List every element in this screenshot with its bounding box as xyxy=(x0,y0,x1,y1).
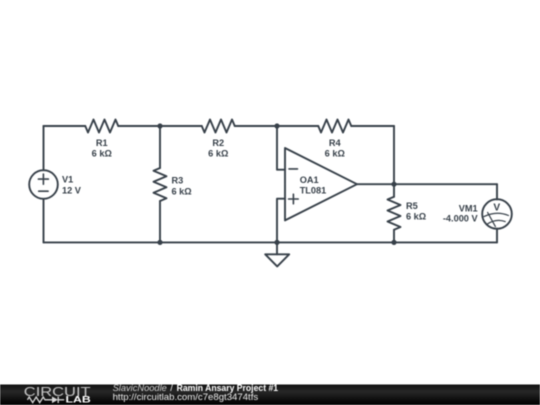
wire R5 stubs xyxy=(393,184,395,242)
resistor R3 xyxy=(154,168,167,201)
resistor R5 xyxy=(388,197,401,230)
svg-text:6 kΩ: 6 kΩ xyxy=(172,186,192,196)
resistor R2 xyxy=(202,120,235,133)
svg-text:http://circuitlab.com/c7e8gt34: http://circuitlab.com/c7e8gt3474tfs xyxy=(113,392,259,402)
svg-text:6 kΩ: 6 kΩ xyxy=(208,148,228,158)
wire feedback right xyxy=(393,126,395,184)
svg-text:V: V xyxy=(493,202,500,213)
logo CircuitLab xyxy=(24,384,91,405)
voltage source V1 xyxy=(29,170,58,199)
wire output xyxy=(357,183,497,185)
wire inverting input xyxy=(277,126,285,170)
svg-text:6 kΩ: 6 kΩ xyxy=(406,212,426,222)
svg-text:R2: R2 xyxy=(212,138,224,148)
node ground junction xyxy=(274,240,279,245)
svg-text:R1: R1 xyxy=(96,138,108,148)
svg-text:-4.000 V: -4.000 V xyxy=(443,214,479,224)
svg-text:V1: V1 xyxy=(62,175,73,185)
ground xyxy=(265,254,289,266)
node R5 bottom xyxy=(391,240,396,245)
svg-text:LAB: LAB xyxy=(66,395,91,405)
node R3 top xyxy=(157,123,162,128)
wire non-inverting input xyxy=(277,199,285,243)
svg-text:6 kΩ: 6 kΩ xyxy=(92,148,112,158)
wire bottom rail xyxy=(44,241,498,243)
svg-text:R4: R4 xyxy=(329,138,342,148)
op-amp OA1 xyxy=(285,148,357,220)
svg-text:OA1: OA1 xyxy=(300,175,319,185)
wire VM1 stubs xyxy=(496,184,498,242)
wire left branch xyxy=(43,126,45,242)
svg-text:6 kΩ: 6 kΩ xyxy=(325,148,345,158)
wire top rail xyxy=(44,125,395,127)
svg-text:R5: R5 xyxy=(406,201,418,211)
svg-text:12 V: 12 V xyxy=(62,185,82,195)
wire R3 stubs xyxy=(159,126,161,242)
wire ground stub xyxy=(276,242,278,254)
svg-text:VM1: VM1 xyxy=(459,204,478,214)
svg-text:R3: R3 xyxy=(172,176,184,186)
voltmeter VM1 xyxy=(482,199,512,229)
node R3 bottom xyxy=(157,240,162,245)
node inverting column top xyxy=(274,123,279,128)
svg-text:TL081: TL081 xyxy=(300,186,327,196)
node output xyxy=(391,182,396,187)
resistor R1 xyxy=(85,120,118,133)
resistor R4 xyxy=(318,120,351,133)
